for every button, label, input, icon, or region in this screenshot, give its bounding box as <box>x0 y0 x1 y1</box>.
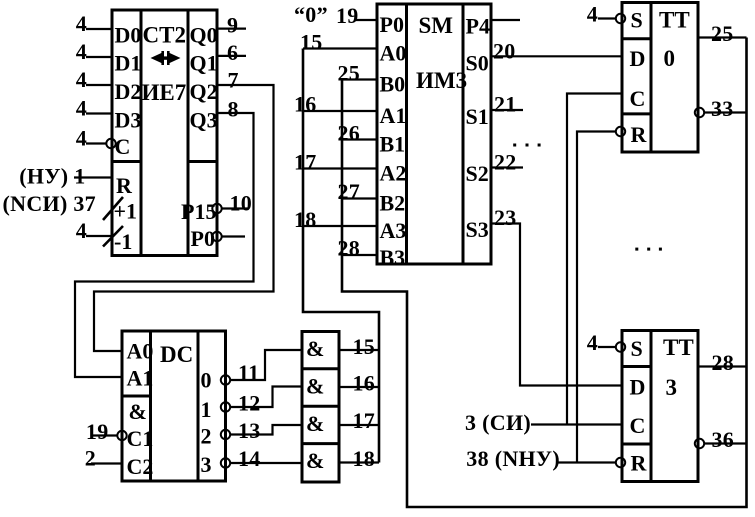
svg-text:CT2: CT2 <box>143 23 186 48</box>
svg-text:22: 22 <box>494 150 517 175</box>
wire TT0 inverse output net 33 with bubble <box>695 96 747 121</box>
svg-text:“0”: “0” <box>294 2 328 27</box>
wire net 28 to adder B3 <box>338 236 378 261</box>
node 3 (СИ) input TT3 C <box>465 410 622 435</box>
svg-text:10: 10 <box>230 191 253 216</box>
wire TT0 output net 25 <box>698 21 747 46</box>
wire TT3 inverse output net 36 with bubble <box>695 427 747 452</box>
wire net 18 to adder A3 <box>294 207 377 232</box>
wire output P0 with bubble <box>212 232 245 241</box>
svg-text:Q2: Q2 <box>190 79 218 104</box>
svg-text:23: 23 <box>494 205 517 230</box>
wire net 15 bus to adder A0 <box>300 30 379 463</box>
svg-text:26: 26 <box>338 121 361 146</box>
svg-text:S3: S3 <box>466 217 489 242</box>
svg-text:A3: A3 <box>380 218 407 243</box>
svg-text:0: 0 <box>664 46 676 71</box>
svg-text:(NСИ) 37: (NСИ) 37 <box>3 191 96 216</box>
wire input D1 <box>76 39 112 64</box>
wire net 8 Q3 to DC A1 <box>75 97 254 378</box>
wire net 17 to adder A2 <box>294 150 377 175</box>
svg-text:15: 15 <box>353 334 376 359</box>
svg-text:4: 4 <box>76 96 87 121</box>
svg-text:&: & <box>306 336 324 361</box>
svg-text:25: 25 <box>711 21 734 46</box>
svg-text:S0: S0 <box>466 51 489 76</box>
svg-text:7: 7 <box>228 68 239 93</box>
svg-text:Q3: Q3 <box>190 108 218 133</box>
svg-text:28: 28 <box>712 350 735 375</box>
node 2 input C2 <box>85 446 122 471</box>
svg-text:D2: D2 <box>115 79 142 104</box>
svg-text:4: 4 <box>587 330 598 355</box>
svg-text:11: 11 <box>238 360 259 385</box>
flip-flop TT0 body <box>622 3 698 153</box>
wire TT3 output net 28 <box>698 350 747 375</box>
svg-text:19: 19 <box>86 419 109 444</box>
svg-text:R: R <box>116 173 133 198</box>
node (NСИ) 37 input +1 dynamic <box>3 191 123 220</box>
flip-flop TT3 body <box>622 331 698 482</box>
wire input D0 <box>76 11 112 36</box>
svg-text:9: 9 <box>227 13 238 38</box>
svg-text:16: 16 <box>353 371 376 396</box>
svg-text:&: & <box>306 374 324 399</box>
svg-text:18: 18 <box>294 207 317 232</box>
counter DD1 CT2 ИЕ7 body <box>112 10 217 256</box>
svg-text:Q1: Q1 <box>190 51 218 76</box>
wire net 25 bus to adder B0 <box>338 38 747 508</box>
node "0" 19 input P0 of adder <box>294 2 377 28</box>
svg-text:Q0: Q0 <box>190 23 218 48</box>
svg-text:S1: S1 <box>466 104 489 129</box>
svg-text:TT: TT <box>663 335 694 360</box>
svg-text:C1: C1 <box>127 426 154 451</box>
svg-text:16: 16 <box>294 92 317 117</box>
wire output Q0 pin 9 <box>217 13 246 38</box>
wire net 11 DC out0 to AND1 <box>221 350 302 385</box>
svg-text:B1: B1 <box>380 132 406 157</box>
wire net 7 Q2 to DC A0 <box>94 68 274 352</box>
svg-text:36: 36 <box>712 427 735 452</box>
wire output P15 pin 10 with bubble <box>212 191 252 216</box>
ellipsis dots between S1 and S2 <box>513 144 540 147</box>
wire input D2 <box>76 67 112 92</box>
svg-text:P0: P0 <box>380 12 404 37</box>
svg-text:B3: B3 <box>380 245 406 270</box>
svg-text:A1: A1 <box>127 366 154 391</box>
svg-text:ИМ3: ИМ3 <box>416 68 467 93</box>
svg-text:17: 17 <box>294 150 317 175</box>
svg-text:27: 27 <box>338 179 361 204</box>
svg-text:21: 21 <box>494 92 517 117</box>
node 4 input TT0 S with bubble <box>587 2 626 27</box>
svg-text:18: 18 <box>353 446 376 471</box>
svg-text:A1: A1 <box>380 103 407 128</box>
svg-text:19: 19 <box>336 3 359 28</box>
wire AND2 output net 16 <box>339 371 379 396</box>
svg-text:R: R <box>631 122 648 147</box>
wire input C with inversion bubble <box>76 126 116 151</box>
wire input D3 <box>76 96 112 121</box>
svg-text:25: 25 <box>338 61 361 86</box>
svg-text:2: 2 <box>85 446 96 471</box>
svg-text:(НУ) 1: (НУ) 1 <box>19 164 85 189</box>
svg-text:D: D <box>630 375 646 400</box>
node 4 input TT3 S with bubble <box>587 330 626 355</box>
svg-text:ИЕ7: ИЕ7 <box>142 80 187 105</box>
counter up/down arrow symbol <box>151 51 181 65</box>
svg-text:2: 2 <box>201 424 212 449</box>
wire AND4 output net 18 <box>339 446 379 471</box>
AND gate stack body <box>302 332 339 483</box>
svg-text:S2: S2 <box>466 161 489 186</box>
svg-text:20: 20 <box>493 39 516 64</box>
svg-text:DC: DC <box>160 342 193 367</box>
svg-text:4: 4 <box>76 39 87 64</box>
wire input -1 dynamic <box>76 218 123 247</box>
svg-text:3: 3 <box>201 452 212 477</box>
svg-text:A0: A0 <box>380 41 407 66</box>
svg-text:S: S <box>631 336 643 361</box>
wire TT0 C to СИ net <box>567 94 622 425</box>
svg-text:12: 12 <box>238 391 261 416</box>
svg-text:B0: B0 <box>380 72 406 97</box>
svg-text:&: & <box>306 448 324 473</box>
wire net 20 S0 to TT0 D <box>491 39 622 64</box>
svg-text:A2: A2 <box>380 161 407 186</box>
svg-text:0: 0 <box>201 368 212 393</box>
svg-text:C: C <box>115 134 131 159</box>
svg-text:R: R <box>631 451 648 476</box>
svg-text:P0: P0 <box>191 226 215 251</box>
svg-text:D: D <box>630 46 646 71</box>
svg-text:13: 13 <box>238 418 261 443</box>
svg-text:D3: D3 <box>115 108 142 133</box>
wire net 13 DC out2 to AND3 <box>221 418 302 443</box>
svg-text:C: C <box>630 86 646 111</box>
wire AND1 output net 15 <box>339 334 379 359</box>
svg-text:P15: P15 <box>181 199 216 224</box>
node (НУ) 1 input R <box>19 164 112 189</box>
svg-text:P4: P4 <box>466 14 490 39</box>
svg-text:C: C <box>630 413 646 438</box>
svg-text:TT: TT <box>659 8 690 33</box>
svg-text:&: & <box>129 399 147 424</box>
wire TT0 R to НУ net with bubble <box>577 127 625 463</box>
wire output P4 <box>491 19 520 21</box>
svg-text:S: S <box>631 8 643 33</box>
wire output S2 net 22 <box>491 150 523 175</box>
svg-text:6: 6 <box>227 40 238 65</box>
svg-text:B2: B2 <box>380 191 406 216</box>
svg-text:SM: SM <box>419 13 454 38</box>
svg-text:3 (СИ): 3 (СИ) <box>465 410 531 435</box>
svg-text:4: 4 <box>76 126 87 151</box>
svg-text:17: 17 <box>353 408 376 433</box>
svg-text:D0: D0 <box>115 23 142 48</box>
node 19 input C1 with bubble <box>86 419 127 444</box>
decoder DD3 DC body <box>122 331 226 481</box>
svg-text:3: 3 <box>666 375 678 400</box>
svg-text:D1: D1 <box>115 51 142 76</box>
wire AND3 output net 17 <box>339 408 379 433</box>
svg-text:C2: C2 <box>127 454 154 479</box>
svg-text:4: 4 <box>76 218 87 243</box>
wire net 14 DC out3 to AND4 <box>221 446 302 471</box>
svg-text:4: 4 <box>76 11 87 36</box>
svg-text:A0: A0 <box>127 339 154 364</box>
svg-text:28: 28 <box>338 236 361 261</box>
svg-text:1: 1 <box>201 397 212 422</box>
svg-text:33: 33 <box>711 96 734 121</box>
svg-text:15: 15 <box>300 30 323 55</box>
svg-text:4: 4 <box>587 2 598 27</box>
wire output S1 net 21 <box>491 92 523 117</box>
svg-text:38 (NНУ): 38 (NНУ) <box>466 446 560 471</box>
wire net 27 to adder B2 <box>338 179 378 204</box>
wire net 16 to adder A1 <box>294 92 377 117</box>
ellipsis dots between TT0 and TT3 <box>635 248 662 251</box>
wire net 23 S3 to TT3 D <box>491 205 622 386</box>
wire net 12 DC out1 to AND2 <box>221 387 302 416</box>
svg-text:14: 14 <box>238 446 261 471</box>
wire net 26 to adder B1 <box>338 121 378 146</box>
node 38 (NНУ) input TT3 R with bubble <box>466 446 625 471</box>
svg-text:&: & <box>306 411 324 436</box>
wire output Q1 pin 6 <box>217 40 246 65</box>
svg-text:8: 8 <box>228 97 239 122</box>
svg-text:4: 4 <box>76 67 87 92</box>
adder DD2 SM ИМ3 body <box>377 4 491 264</box>
